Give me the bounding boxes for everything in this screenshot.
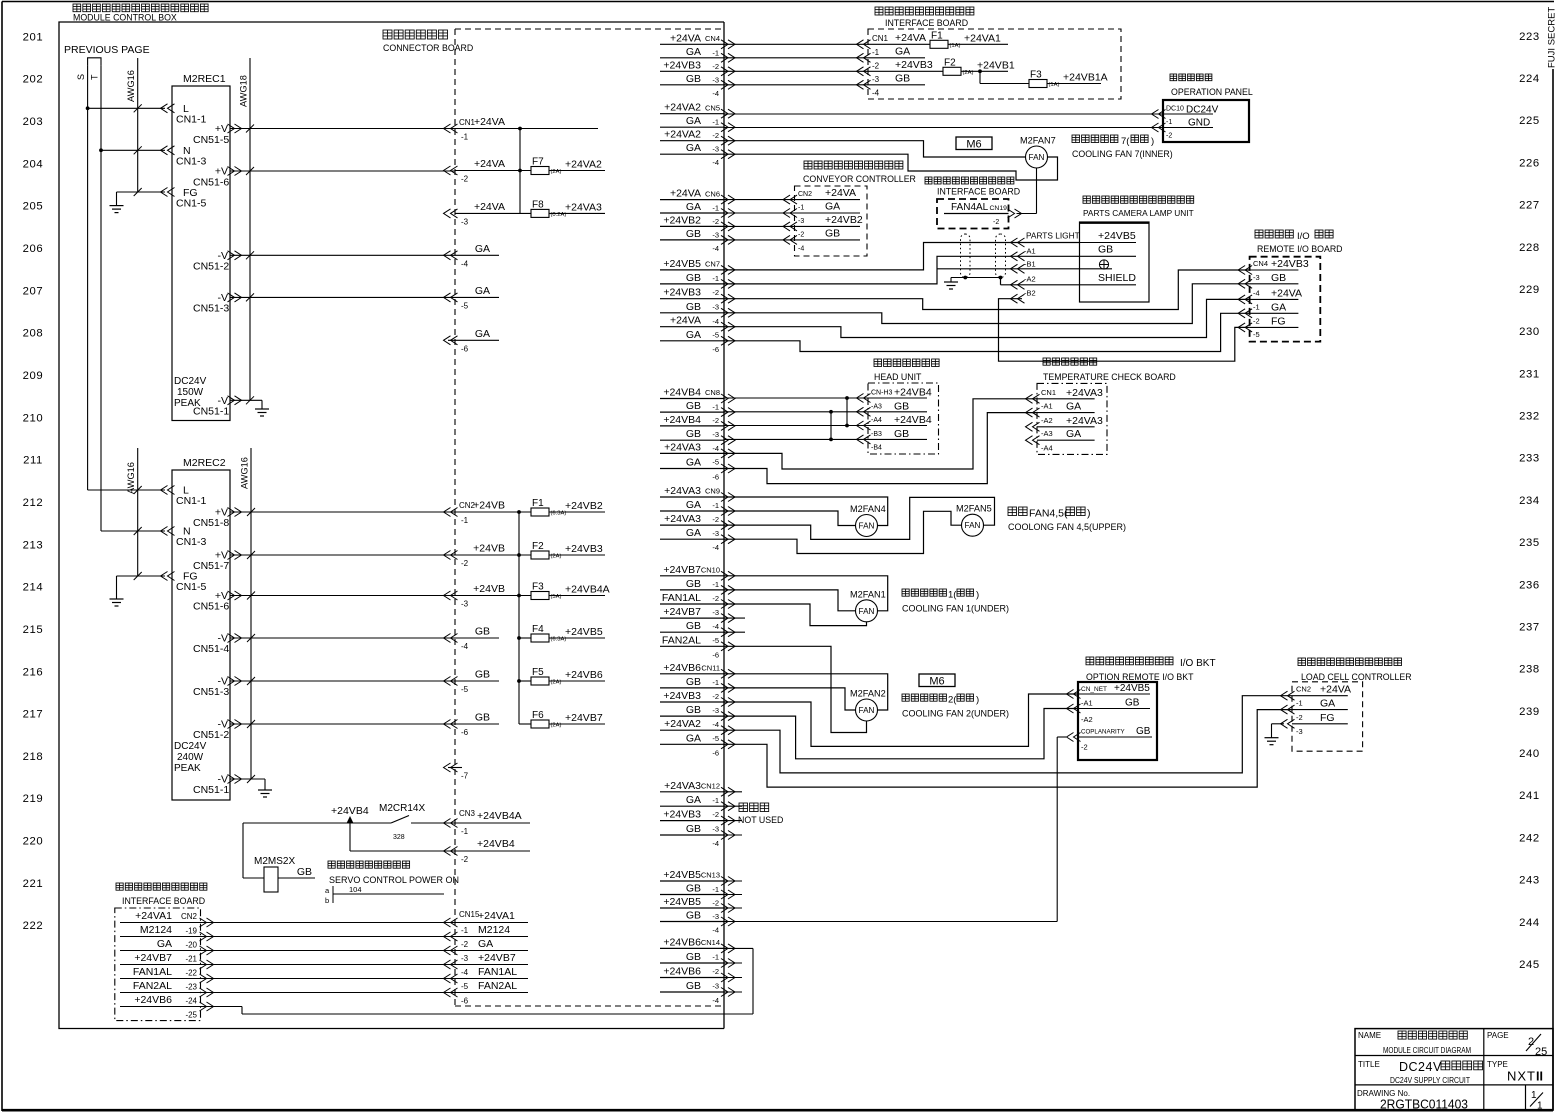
svg-text:GB: GB — [895, 73, 910, 85]
svg-text:M2FAN7: M2FAN7 — [1020, 136, 1056, 146]
svg-text:+24VA1: +24VA1 — [964, 32, 1001, 44]
svg-text:GB: GB — [686, 620, 701, 632]
svg-text:+24VB4: +24VB4 — [894, 387, 932, 399]
svg-text:237: 237 — [1519, 621, 1540, 633]
svg-text:(2A): (2A) — [551, 554, 562, 560]
svg-text:-3: -3 — [798, 218, 804, 225]
svg-text:-2: -2 — [1081, 743, 1088, 752]
junction CN1 bus top — [518, 127, 522, 131]
svg-text:F2: F2 — [532, 541, 544, 552]
svg-text:T: T — [90, 74, 100, 80]
option remote io bkt outline — [1078, 682, 1157, 760]
fuse F8 — [531, 209, 549, 217]
svg-text:COPLANARITY: COPLANARITY — [1081, 729, 1125, 736]
svg-text:150W: 150W — [177, 387, 204, 398]
svg-text:FAN2AL: FAN2AL — [478, 980, 517, 992]
wire CN7-2 GB to -A1 — [724, 256, 1080, 284]
svg-text:(6.3A): (6.3A) — [551, 511, 567, 517]
temperature check board title — [1043, 358, 1050, 365]
svg-text:235: 235 — [1519, 537, 1540, 549]
svg-text:TYPE: TYPE — [1487, 1060, 1508, 1069]
svg-text:CN5: CN5 — [705, 104, 720, 113]
svg-text:230: 230 — [1519, 326, 1540, 338]
svg-text:GB: GB — [297, 866, 312, 878]
svg-text:-7: -7 — [461, 772, 469, 781]
fuse F2 — [531, 551, 549, 559]
svg-text:-4: -4 — [712, 158, 719, 167]
svg-text:+24VB6: +24VB6 — [134, 994, 172, 1006]
wire CN13 pin 0 +24VB5 — [660, 880, 724, 882]
svg-text:+24VA3: +24VA3 — [1066, 387, 1103, 399]
wire CN1-3 +24VA — [455, 212, 531, 214]
wire CN13 pin 2 +24VB5 — [660, 907, 724, 909]
wire CN15 FAN1AL — [455, 978, 528, 980]
svg-text:HEAD UNIT: HEAD UNIT — [874, 372, 922, 382]
svg-text:GA: GA — [1066, 428, 1081, 440]
wire CN7-4 to remote -3 — [724, 284, 1250, 324]
cable AWG16 left M2REC1 — [137, 58, 139, 192]
wire CN10-6 FAN2AL to fan2 bottom — [724, 646, 867, 732]
wire CN1-1 +24VA — [455, 128, 598, 130]
svg-text:CN14: CN14 — [701, 938, 720, 947]
svg-text:-2: -2 — [712, 810, 719, 819]
svg-text:241: 241 — [1519, 790, 1540, 802]
svg-text:GA: GA — [157, 938, 172, 950]
svg-text:231: 231 — [1519, 368, 1540, 380]
svg-text:+24VA: +24VA — [474, 201, 505, 213]
svg-text:M2124: M2124 — [140, 924, 172, 936]
svg-text:-1: -1 — [712, 501, 719, 510]
svg-text:): ) — [1087, 508, 1091, 520]
svg-text:F3: F3 — [1030, 70, 1042, 81]
fuse F1 — [531, 508, 549, 516]
svg-text:F2: F2 — [944, 57, 956, 68]
svg-text:F4: F4 — [532, 624, 544, 635]
wire +24VB6 step to CN14 net — [202, 1006, 242, 1008]
svg-text:205: 205 — [23, 201, 44, 213]
load cell controller title — [1298, 658, 1306, 666]
svg-text:-2: -2 — [712, 594, 719, 603]
svg-text:PARTS LIGHT: PARTS LIGHT — [1026, 231, 1080, 241]
wire CN5 pin 1 GA — [660, 126, 724, 128]
wire CN14 pin 0 +24VB6 — [660, 947, 724, 949]
svg-text:+24VB3: +24VB3 — [663, 287, 701, 299]
svg-text:MODULE CONTROL BOX: MODULE CONTROL BOX — [73, 13, 177, 23]
svg-text:240W: 240W — [177, 752, 204, 763]
svg-text:(5A): (5A) — [551, 594, 562, 600]
svg-text:-2: -2 — [461, 940, 469, 949]
fan M2FAN4 — [856, 515, 878, 537]
svg-text:): ) — [976, 590, 979, 601]
parts camera lamp unit outline — [1080, 222, 1150, 302]
svg-text:M2MS2X: M2MS2X — [254, 856, 295, 867]
wire CN9 pin 3 GA — [660, 538, 724, 540]
svg-text:GA: GA — [686, 732, 701, 744]
wire CN10-3 FAN1AL to fan1 bottom — [724, 604, 867, 626]
wire N to M2REC2 — [101, 530, 165, 532]
svg-text:CN4: CN4 — [705, 34, 720, 43]
wire CN4 pin 1 GA — [660, 57, 724, 59]
svg-text:(1A): (1A) — [1049, 82, 1060, 88]
fan M2FAN2 — [856, 699, 878, 721]
load cell controller outline — [1292, 682, 1363, 751]
svg-text:+24VB3: +24VB3 — [895, 59, 933, 71]
wire interface pin -24 FAN2AL — [120, 992, 202, 994]
wire CN14 pin 1 GB — [660, 962, 724, 964]
svg-text:GA: GA — [895, 46, 910, 58]
svg-text:-2: -2 — [461, 855, 469, 864]
svg-text:TITLE: TITLE — [1358, 1060, 1380, 1069]
svg-text:CN51-1: CN51-1 — [193, 784, 229, 796]
wire CN5 pin 2 +24VA2 — [660, 140, 724, 142]
svg-text:CN12: CN12 — [701, 782, 720, 791]
svg-text:216: 216 — [23, 666, 44, 678]
svg-text:+24VA2: +24VA2 — [664, 718, 701, 730]
wire interface pin -23 FAN1AL — [120, 978, 202, 980]
wire CN11 pin 1 GB — [660, 687, 724, 689]
wire T vertical — [100, 66, 102, 531]
svg-text:-3: -3 — [712, 825, 719, 834]
wire L to M2REC2 — [88, 489, 165, 491]
svg-text:M2CR14X: M2CR14X — [379, 803, 425, 814]
svg-text:CN6: CN6 — [705, 190, 720, 199]
temperature check board outline — [1037, 383, 1107, 454]
cable shield symbol — [961, 234, 971, 278]
svg-text:-B1: -B1 — [1024, 260, 1036, 269]
svg-text:GB: GB — [475, 669, 490, 681]
svg-text:CN3: CN3 — [459, 809, 476, 818]
wire interface to CN15 FAN1AL — [202, 978, 455, 980]
wire M2REC1 CN51-5 to CN1-1 — [230, 128, 455, 130]
wire interface to CN15 +24VA1 — [202, 922, 455, 924]
wire CN10-4 stub — [724, 617, 746, 619]
svg-text:238: 238 — [1519, 664, 1540, 676]
svg-text:GB: GB — [825, 227, 840, 239]
svg-text:GA: GA — [686, 142, 701, 154]
svg-text:+24VA3: +24VA3 — [565, 201, 602, 213]
svg-text:M6: M6 — [929, 676, 944, 688]
svg-text:M2REC2: M2REC2 — [183, 457, 226, 469]
svg-text:-1: -1 — [461, 133, 469, 142]
svg-text:-3: -3 — [461, 217, 469, 226]
relay coil M2MS2X — [264, 867, 278, 892]
wire CN8 pin 0 +24VB4 — [660, 398, 724, 400]
wire CN11-1 to fan2 right — [724, 674, 888, 710]
svg-text:-2: -2 — [712, 515, 719, 524]
ground load cell — [1265, 737, 1279, 739]
svg-text:212: 212 — [23, 497, 44, 509]
interface board bottom-left title — [116, 883, 123, 890]
svg-text:-A1: -A1 — [1081, 699, 1093, 708]
wire CN9-3 to fan5 right — [724, 497, 995, 539]
svg-text:CN51-2: CN51-2 — [193, 729, 229, 741]
svg-text:-2: -2 — [712, 899, 719, 908]
wire CN11-5 to load cell +24VA — [724, 696, 1293, 773]
svg-text:CN51-8: CN51-8 — [193, 517, 229, 529]
svg-text:+24VB6: +24VB6 — [663, 966, 701, 978]
wire shield to -A2 — [1000, 278, 1002, 285]
svg-text:F5: F5 — [532, 667, 544, 678]
svg-text:M2FAN4: M2FAN4 — [850, 504, 886, 514]
svg-text:-4: -4 — [712, 543, 719, 552]
wire CN7 pin 4 +24VA — [660, 326, 724, 328]
svg-text:+24VB3: +24VB3 — [565, 543, 603, 555]
svg-text:-4: -4 — [461, 968, 469, 977]
svg-text:-4: -4 — [712, 720, 719, 729]
svg-text:+24VA3: +24VA3 — [664, 780, 701, 792]
svg-text:-3: -3 — [461, 954, 469, 963]
wire CN5 pin 3 GA — [660, 153, 724, 155]
svg-text:-3: -3 — [712, 230, 719, 239]
svg-text:GB: GB — [1098, 244, 1113, 256]
svg-text:-B2: -B2 — [1024, 289, 1036, 298]
svg-text:GB: GB — [475, 626, 490, 638]
interface board bottom-left outline — [115, 908, 201, 1021]
wire M2REC2 CN51-8 to CN2-1 — [230, 511, 455, 513]
svg-text:AWG16: AWG16 — [240, 457, 250, 489]
wire CN11-6 to load cell GA — [724, 710, 1293, 788]
svg-text:GB: GB — [686, 400, 701, 412]
svg-text:CN51-3: CN51-3 — [193, 303, 229, 315]
svg-text:-4: -4 — [712, 839, 719, 848]
svg-text:-1: -1 — [461, 926, 469, 935]
svg-text:+24VA3: +24VA3 — [664, 441, 701, 453]
svg-text:-5: -5 — [461, 685, 469, 694]
svg-text:CN11: CN11 — [701, 664, 720, 673]
svg-text:AWG18: AWG18 — [239, 75, 249, 107]
wire CN12 pin 1 GA — [660, 805, 724, 807]
svg-text:-5: -5 — [461, 301, 469, 310]
svg-text:-6: -6 — [712, 748, 719, 757]
wire CN4 pin 3 GB — [660, 84, 724, 86]
svg-text:+24VB: +24VB — [473, 583, 505, 595]
svg-text:+24VB5: +24VB5 — [663, 896, 701, 908]
svg-text:243: 243 — [1519, 875, 1540, 887]
svg-text:-3: -3 — [1296, 727, 1303, 736]
svg-text:220: 220 — [23, 836, 44, 848]
svg-text:-5: -5 — [712, 636, 719, 645]
svg-text:GB: GB — [686, 823, 701, 835]
svg-text:GA: GA — [686, 794, 701, 806]
svg-text:234: 234 — [1519, 495, 1540, 507]
svg-text:-A4: -A4 — [1041, 443, 1053, 452]
svg-text:GB: GB — [1271, 272, 1286, 284]
svg-text:+24VB2: +24VB2 — [565, 500, 603, 512]
cable AWG16 right M2REC2 — [250, 448, 252, 779]
svg-text:-2: -2 — [1253, 316, 1260, 325]
wire FG to M2REC1 — [117, 191, 166, 193]
wire CN6 pin 2 +24VB2 — [660, 225, 724, 227]
connector board title — [383, 30, 392, 39]
wire CN14-1 +24VB6 — [724, 947, 754, 949]
svg-text:NOT USED: NOT USED — [738, 815, 783, 825]
wire CN15 FAN2AL — [455, 992, 528, 994]
border frame — [2, 1, 1554, 3]
wire CN14 pin 2 +24VB6 — [660, 977, 724, 979]
svg-text:-3: -3 — [461, 600, 469, 609]
svg-text:F7: F7 — [532, 157, 544, 168]
svg-text:-3: -3 — [1253, 273, 1260, 282]
svg-text:2RGTBC011403: 2RGTBC011403 — [1380, 1097, 1468, 1112]
svg-text:GA: GA — [1066, 401, 1081, 413]
wire CN11 pin 3 GB — [660, 715, 724, 717]
wire CN11 pin 2 +24VB3 — [660, 701, 724, 703]
label cooling fan 1 under — [902, 589, 909, 596]
svg-text:(2A): (2A) — [963, 70, 974, 76]
svg-text:207: 207 — [23, 285, 44, 297]
wire M2MS2X to GB — [278, 877, 315, 879]
svg-text:-4: -4 — [872, 89, 880, 98]
connector board outline — [455, 28, 724, 30]
svg-text:GB: GB — [475, 712, 490, 724]
wire M2REC2 CN51-7 to CN2-2 — [230, 554, 455, 556]
net +24VB4 tag — [347, 816, 354, 823]
svg-text:F6: F6 — [532, 710, 544, 721]
svg-text:204: 204 — [23, 158, 44, 170]
interface board top outline — [868, 29, 1121, 99]
svg-text:COOLING FAN 2(UNDER): COOLING FAN 2(UNDER) — [902, 709, 1009, 719]
wire CN11 pin 0 +24VB6 — [660, 673, 724, 675]
wire CN2-2 +24VB — [455, 554, 531, 556]
svg-text:+24VA2: +24VA2 — [565, 159, 602, 171]
svg-text:239: 239 — [1519, 706, 1540, 718]
svg-text:CN1-1: CN1-1 — [176, 495, 207, 507]
svg-text:GB: GB — [1125, 698, 1140, 709]
svg-text:+24VB3: +24VB3 — [663, 59, 701, 71]
fuse F5 stub — [519, 680, 531, 682]
wire shield drain — [951, 277, 1001, 279]
svg-text:GB: GB — [686, 980, 701, 992]
wire to M2MS2X — [242, 823, 244, 878]
svg-text:209: 209 — [23, 370, 44, 382]
wire N to M2REC1 — [101, 149, 165, 151]
svg-text:214: 214 — [23, 582, 44, 594]
svg-text:CN1-3: CN1-3 — [176, 536, 207, 548]
svg-text:LOAD CELL CONTROLLER: LOAD CELL CONTROLLER — [1301, 672, 1412, 682]
svg-text:-4: -4 — [712, 926, 719, 935]
option remote io bkt title — [1086, 657, 1094, 665]
svg-text:CN_NET: CN_NET — [1081, 686, 1107, 693]
svg-text:CN15: CN15 — [459, 910, 480, 919]
fuse F7 — [531, 167, 549, 175]
wire CN10 pin 1 GB — [660, 589, 724, 591]
svg-text:+24VA2: +24VA2 — [664, 102, 701, 114]
svg-text:FAN1AL: FAN1AL — [478, 966, 517, 978]
junction T-N1 — [99, 148, 103, 152]
fuse F2 interface — [943, 67, 961, 75]
svg-text:FAN2AL: FAN2AL — [133, 980, 172, 992]
svg-text:CN8: CN8 — [705, 388, 720, 397]
svg-text:-6: -6 — [461, 344, 469, 353]
fuse F4 stub — [519, 637, 531, 639]
conveyor controller outline — [795, 186, 868, 256]
wire CN10 pin 0 +24VB7 — [660, 575, 724, 577]
wire CN10 pin 2 FAN1AL — [660, 603, 724, 605]
wire CN8 pin 2 +24VB4 — [660, 425, 724, 427]
svg-text:COOLING FAN 1(UNDER): COOLING FAN 1(UNDER) — [902, 604, 1009, 614]
wire CN7-1 +24VB5 to parts light — [724, 243, 1080, 270]
svg-text:242: 242 — [1519, 832, 1540, 844]
svg-text:F8: F8 — [532, 199, 544, 210]
svg-text:+24VB4A: +24VB4A — [565, 584, 610, 596]
junction +24VB1 — [978, 69, 982, 73]
svg-text:CN1: CN1 — [872, 34, 889, 43]
svg-text:(6.3A): (6.3A) — [551, 637, 567, 643]
svg-text:FAN: FAN — [1029, 153, 1045, 162]
svg-text:-2: -2 — [712, 131, 719, 140]
svg-text:GB: GB — [686, 428, 701, 440]
label cooling fan 2 under — [902, 694, 909, 701]
svg-text:-A2: -A2 — [1024, 275, 1036, 284]
wire CN4 pin 0 +24VA — [660, 43, 724, 45]
svg-text:-1: -1 — [461, 516, 469, 525]
svg-text:+24VB4A: +24VB4A — [477, 810, 522, 822]
wire interface to CN15 +24VB7 — [202, 964, 455, 966]
svg-text:+24VB3: +24VB3 — [663, 690, 701, 702]
svg-text:236: 236 — [1519, 579, 1540, 591]
svg-text:FUJI SECRET: FUJI SECRET — [1547, 7, 1556, 68]
svg-text:-23: -23 — [185, 983, 197, 992]
svg-text:GA: GA — [686, 46, 701, 58]
svg-text:-6: -6 — [712, 345, 719, 354]
wire M2REC1 CN51-3 to CN1-5 — [230, 296, 455, 298]
wire S vertical — [87, 66, 89, 490]
svg-text:-3: -3 — [712, 608, 719, 617]
svg-text:+24VB6: +24VB6 — [663, 662, 701, 674]
svg-text:CN51-6: CN51-6 — [193, 177, 229, 189]
marker M6 upper — [956, 137, 992, 150]
svg-text:CN1: CN1 — [1041, 388, 1056, 397]
svg-text:+24VA: +24VA — [1320, 684, 1351, 696]
wire CN14 stubs — [724, 962, 743, 964]
wire CN8-5 to temp CN1 — [724, 399, 1038, 469]
svg-text:INTERFACE BOARD: INTERFACE BOARD — [122, 896, 205, 906]
svg-text:-2: -2 — [712, 967, 719, 976]
svg-text:CN2: CN2 — [181, 912, 198, 921]
svg-text:-4: -4 — [712, 317, 719, 326]
svg-text:GB: GB — [894, 428, 909, 440]
label cooling fan 4 5 upper — [1008, 507, 1017, 516]
wire load cell FG to ground — [1272, 723, 1285, 725]
svg-text:+24VA: +24VA — [474, 158, 505, 170]
svg-text:GA: GA — [686, 499, 701, 511]
svg-text:): ) — [1151, 136, 1154, 147]
wire CN9 pin 2 +24VA3 — [660, 524, 724, 526]
svg-text:-22: -22 — [185, 969, 197, 978]
wire CN1-6 GA — [448, 339, 499, 341]
wire relay feed — [243, 822, 391, 824]
svg-text:240: 240 — [1519, 748, 1540, 760]
svg-text:I/O: I/O — [1297, 231, 1310, 242]
svg-text:-3: -3 — [712, 982, 719, 991]
svg-text:(2A): (2A) — [551, 169, 562, 175]
svg-text:FAN: FAN — [859, 706, 875, 715]
wire interface to CN15 M2124 — [202, 936, 455, 938]
svg-text:-2: -2 — [798, 231, 804, 238]
svg-text:244: 244 — [1519, 917, 1540, 929]
svg-text:I/O BKT: I/O BKT — [1180, 658, 1216, 669]
head unit outline — [868, 383, 939, 454]
svg-text:INTERFACE BOARD: INTERFACE BOARD — [885, 18, 968, 28]
svg-text:1: 1 — [1537, 1101, 1543, 1112]
wire CN7-5 to remote -4 — [724, 299, 1250, 337]
cable AWG16 left M2REC2 — [137, 448, 139, 576]
wire interface pin -25 +24VB6 — [120, 1006, 202, 1008]
svg-text:CN1-3: CN1-3 — [176, 156, 207, 168]
svg-text:+24VB5: +24VB5 — [565, 626, 603, 638]
svg-text:CN13: CN13 — [701, 871, 720, 880]
wire L to M2REC1 — [88, 107, 165, 109]
